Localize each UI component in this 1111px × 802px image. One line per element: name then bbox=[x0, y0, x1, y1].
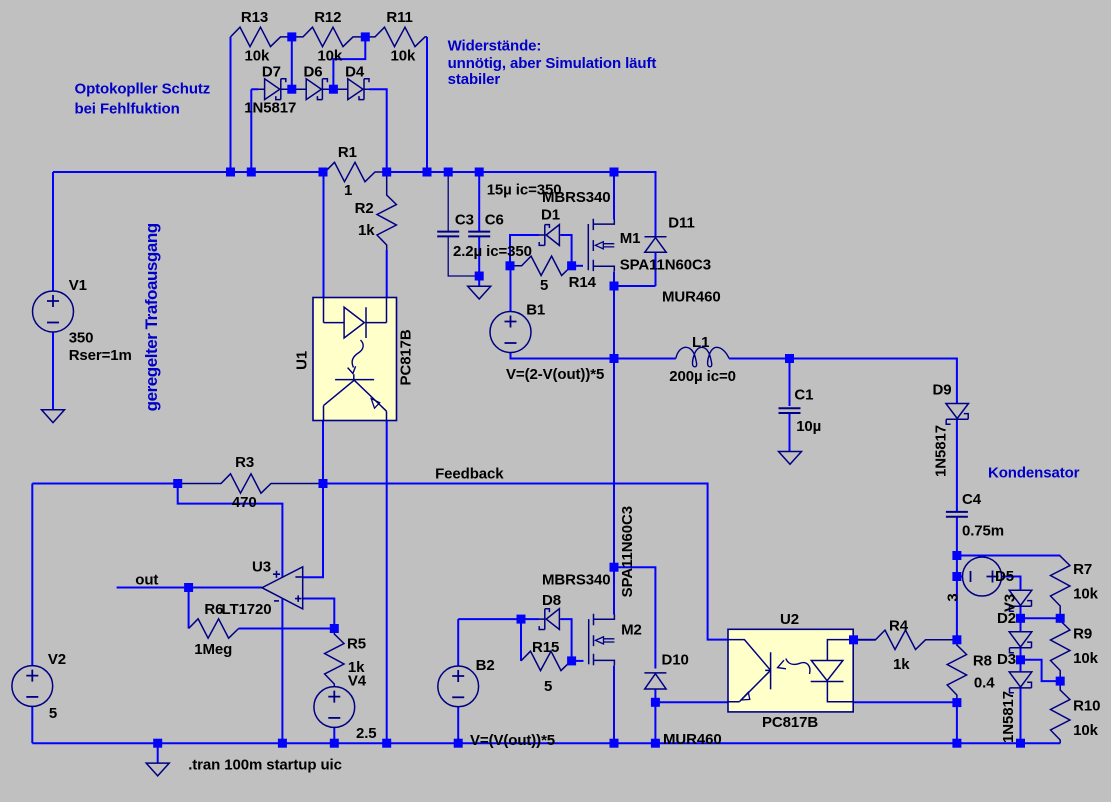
wire D2 cathode to D3 anode bbox=[1020, 648, 1022, 672]
svg-text:1k: 1k bbox=[358, 222, 375, 239]
svg-text:200µ ic=0: 200µ ic=0 bbox=[669, 368, 736, 385]
svg-text:SPA11N60C3: SPA11N60C3 bbox=[620, 257, 711, 274]
optocoupler U1 LED bbox=[324, 298, 387, 323]
diode D5 bbox=[1009, 590, 1032, 605]
optocoupler U2 LED bbox=[827, 640, 853, 702]
wire R15 left riser bbox=[520, 619, 522, 661]
wire R6 to R5 junction bbox=[239, 628, 335, 630]
junction D2/D3 bbox=[1016, 655, 1025, 664]
junction M1 source bbox=[610, 282, 619, 291]
svg-text:V1: V1 bbox=[69, 277, 87, 294]
junction D6/D4 bbox=[329, 85, 338, 94]
svg-text:D8: D8 bbox=[542, 592, 561, 609]
wire node D6-D4 L-link to R12/R11 junction bbox=[333, 37, 365, 89]
wire U3 non-inverting input to R5 node bbox=[303, 599, 335, 629]
svg-text:B2: B2 bbox=[476, 657, 495, 674]
diode D8 MBRS340 bbox=[546, 609, 559, 630]
svg-text:2.2µ ic=350: 2.2µ ic=350 bbox=[453, 243, 532, 260]
diode D7 1N5817 bbox=[265, 79, 280, 100]
svg-text:MUR460: MUR460 bbox=[663, 731, 722, 748]
wire U2 LED anode to R4 bbox=[853, 639, 875, 641]
voltage source V4 bbox=[314, 687, 355, 728]
svg-text:V2: V2 bbox=[48, 651, 66, 668]
junction rail D10 bbox=[651, 739, 660, 748]
wire B1 gate node riser and D1 top link bbox=[510, 235, 539, 266]
svg-text:0.75m: 0.75m bbox=[962, 523, 1004, 540]
resistor R10 bbox=[1051, 681, 1070, 743]
capacitor C4 bbox=[946, 512, 968, 517]
wire V2 bottom to rail bbox=[31, 706, 33, 743]
junction rail B2 bbox=[454, 739, 463, 748]
resistor R6 bbox=[189, 619, 239, 638]
wire D10 node to U2 emitter pin bbox=[655, 701, 728, 703]
wire M1 drain from bus bbox=[613, 172, 615, 220]
inductor L1 bbox=[676, 347, 729, 367]
junction rail ground bbox=[153, 739, 162, 748]
wire out node down to R6 bbox=[188, 588, 190, 629]
junction bus/C3 bbox=[444, 168, 453, 177]
junction out node bbox=[184, 583, 193, 592]
diode D4 bbox=[348, 79, 363, 100]
junction C1 top bbox=[785, 354, 794, 363]
svg-text:D9: D9 bbox=[933, 382, 952, 399]
capacitor C6 bbox=[468, 232, 490, 237]
junction rail R8 bbox=[952, 739, 961, 748]
junction M2 gate bbox=[567, 656, 576, 665]
bv source B1 bbox=[490, 312, 531, 353]
svg-text:10k: 10k bbox=[391, 48, 416, 65]
svg-text:bei Fehlfuktion: bei Fehlfuktion bbox=[75, 101, 180, 118]
svg-text:D6: D6 bbox=[304, 64, 323, 81]
svg-text:5: 5 bbox=[49, 705, 57, 722]
capacitor C1 bbox=[779, 408, 801, 413]
svg-text:Kondensator: Kondensator bbox=[988, 465, 1080, 482]
wire R8 bottom to rail bbox=[956, 703, 958, 744]
svg-text:R5: R5 bbox=[347, 636, 366, 653]
junction R5 top bbox=[330, 624, 339, 633]
wire R13 left riser bbox=[230, 37, 232, 172]
svg-text:2.5: 2.5 bbox=[356, 725, 377, 742]
junction R12/R11 bbox=[361, 32, 370, 41]
svg-text:U1: U1 bbox=[294, 351, 311, 370]
optocoupler U2 PC817B body bbox=[728, 629, 853, 712]
svg-text:Widerstände:: Widerstände: bbox=[448, 38, 542, 55]
wire node D7-D6 riser to R13/R12 junction bbox=[291, 37, 293, 89]
wire U2 LED cathode to R8 bottom node bbox=[853, 701, 957, 703]
svg-text:1Meg: 1Meg bbox=[194, 641, 232, 658]
junction bus/C6 bbox=[475, 168, 484, 177]
wire U1 left pin top bbox=[323, 172, 325, 298]
svg-text:L1: L1 bbox=[692, 334, 709, 351]
wire U3 inverting input to feedback junction bbox=[303, 484, 323, 578]
ground under C1 bbox=[779, 452, 802, 465]
wire ground stub under C3/C6 bbox=[478, 276, 480, 286]
wire V2 top lead to feedback rail bbox=[31, 484, 33, 666]
optocoupler U1 PC817B body bbox=[313, 298, 397, 421]
resistor R9 bbox=[1051, 618, 1070, 681]
junction D7/D6 bbox=[287, 85, 296, 94]
wire M2 drain stub bbox=[613, 567, 615, 614]
diode D3 1N5817 bbox=[1009, 672, 1032, 687]
svg-text:D10: D10 bbox=[662, 652, 689, 669]
wire V1 top lead bbox=[52, 172, 54, 291]
svg-text:PC817B: PC817B bbox=[398, 329, 415, 385]
junction M2 drain bbox=[610, 563, 619, 572]
wire L1 to C1 node and down to D9 bbox=[729, 359, 957, 404]
wire D2 node to R7/R9 junction bbox=[1021, 617, 1061, 619]
junction bus/D7 bbox=[247, 168, 256, 177]
wire D1 cathode jog down to gate junction bbox=[561, 235, 572, 266]
junction R14 left bbox=[506, 261, 515, 270]
op-amp U3 LT1720 triangle bbox=[262, 567, 303, 609]
wire B2 top lead to D8 node bbox=[458, 619, 521, 666]
svg-text:unnötig, aber Simulation läuft: unnötig, aber Simulation läuft bbox=[448, 55, 657, 72]
svg-text:Feedback: Feedback bbox=[435, 466, 504, 483]
svg-text:D11: D11 bbox=[668, 215, 694, 232]
wire D3 cathode to rail bbox=[1020, 688, 1022, 743]
resistor R13 bbox=[231, 27, 292, 46]
optocoupler U2 light arrow bbox=[786, 659, 810, 675]
junction rail V4 bbox=[330, 739, 339, 748]
wire B2 bottom to rail bbox=[457, 707, 459, 743]
wire B1 bottom to output node bbox=[511, 353, 615, 359]
svg-text:C6: C6 bbox=[485, 212, 504, 229]
svg-text:R14: R14 bbox=[569, 274, 597, 291]
svg-text:PC817B: PC817B bbox=[762, 714, 818, 731]
diode D6 bbox=[306, 79, 321, 100]
wire U3 V- stub down to rail bbox=[281, 598, 283, 743]
optocoupler U2 emitter arrow head bbox=[741, 692, 750, 700]
resistor R8 bbox=[947, 640, 966, 703]
wire output row to L1 bbox=[614, 358, 676, 360]
wire R7 top corner bbox=[1059, 555, 1061, 558]
svg-text:10k: 10k bbox=[317, 48, 342, 65]
wire top bus from V1 to D11 corner bbox=[53, 172, 656, 237]
junction rail M2 bbox=[610, 739, 619, 748]
wire out net to U3 output bbox=[117, 587, 262, 589]
svg-text:1k: 1k bbox=[893, 656, 910, 673]
svg-text:R7: R7 bbox=[1073, 561, 1092, 578]
wire D5 cathode to D2 anode bbox=[1020, 606, 1022, 632]
resistor R7 bbox=[1051, 555, 1070, 618]
svg-text:geregelter Trafoausgang: geregelter Trafoausgang bbox=[142, 223, 161, 411]
svg-text:R8: R8 bbox=[973, 653, 992, 670]
junction bus/M1 drain bbox=[610, 168, 619, 177]
ground under V1 bbox=[42, 410, 65, 423]
junction R4/R8 bbox=[952, 635, 961, 644]
junction C3/C6 ground bbox=[475, 272, 484, 281]
wire M1 source junction down to output row bbox=[613, 286, 615, 359]
wire D9 cathode to C4 bbox=[956, 419, 958, 512]
mosfet M2 SPA11N60C3 bbox=[593, 614, 595, 665]
junction bus/R1 left bbox=[319, 168, 328, 177]
svg-text:.tran 100m startup uic: .tran 100m startup uic bbox=[188, 757, 342, 774]
svg-text:3: 3 bbox=[945, 593, 962, 601]
svg-text:out: out bbox=[135, 572, 158, 589]
wire D8 anode lead bbox=[521, 618, 539, 620]
junction bus/R11 bbox=[423, 168, 432, 177]
svg-text:1: 1 bbox=[344, 182, 352, 199]
svg-text:D4: D4 bbox=[345, 64, 365, 81]
junction bus/R1 right bbox=[382, 168, 391, 177]
wire M1 gate lead bbox=[572, 265, 583, 267]
wire R11 right riser to bus bbox=[426, 37, 428, 172]
resistor R2 bbox=[377, 172, 396, 250]
junction R8 bottom bbox=[952, 698, 961, 707]
svg-text:C3: C3 bbox=[455, 212, 474, 229]
wire D10 bottom to rail bbox=[654, 689, 656, 743]
svg-text:R3: R3 bbox=[235, 454, 254, 471]
wire V1 bottom to ground bbox=[52, 333, 54, 410]
resistor R14 bbox=[510, 256, 572, 275]
op-amp U3 non-inverting input mark bbox=[295, 595, 302, 602]
resistor R15 bbox=[521, 651, 572, 670]
svg-text:470: 470 bbox=[232, 494, 257, 511]
diode D10 MUR460 bbox=[644, 672, 666, 674]
ground on bottom rail bbox=[146, 763, 169, 776]
resistor R4 bbox=[854, 630, 957, 649]
svg-text:10k: 10k bbox=[1073, 586, 1098, 603]
wire M1 source to junction bbox=[613, 272, 615, 287]
wire V4 bottom to rail bbox=[333, 727, 335, 743]
wire D8 cathode jog down to R15/M2 gate node bbox=[561, 619, 572, 661]
svg-text:D3: D3 bbox=[997, 651, 1016, 668]
svg-text:Rser=1m: Rser=1m bbox=[69, 347, 132, 364]
svg-text:5: 5 bbox=[544, 678, 552, 695]
mosfet M1 SPA11N60C3 bbox=[592, 219, 594, 271]
svg-text:V=(2-V(out))*5: V=(2-V(out))*5 bbox=[506, 366, 604, 383]
svg-text:LT1720: LT1720 bbox=[222, 601, 272, 618]
svg-text:MBRS340: MBRS340 bbox=[542, 572, 611, 589]
svg-text:D7: D7 bbox=[262, 64, 281, 81]
op-amp U3 V- mark bbox=[274, 600, 279, 602]
svg-text:U2: U2 bbox=[780, 611, 799, 628]
svg-text:R12: R12 bbox=[314, 9, 341, 26]
svg-text:0.4: 0.4 bbox=[974, 675, 995, 692]
svg-text:M1: M1 bbox=[620, 230, 641, 247]
wire C4 bottom to junctions column bbox=[956, 517, 958, 640]
svg-text:stabiler: stabiler bbox=[448, 71, 501, 88]
svg-text:R11: R11 bbox=[386, 9, 412, 26]
optocoupler U1 light arrow bbox=[352, 340, 363, 368]
svg-text:5: 5 bbox=[540, 277, 548, 294]
svg-text:10k: 10k bbox=[1073, 722, 1098, 739]
wire C6 bottom lead to junction bbox=[478, 237, 480, 276]
svg-text:U3: U3 bbox=[252, 559, 271, 576]
wire V3 plus lead to diode chain top bbox=[1001, 577, 1021, 591]
diode D11 MUR460 bbox=[645, 236, 667, 238]
wire D11 bottom link to M1 source bbox=[614, 253, 656, 287]
wire M1-M2 interconnect down to M2 drain junction bbox=[613, 359, 615, 568]
op-amp U3 V+ mark bbox=[273, 571, 280, 578]
diode D1 MBRS340 bbox=[546, 225, 559, 246]
wire D7 anode riser bbox=[251, 89, 258, 172]
wire bottom ground rail bbox=[32, 742, 1060, 744]
junction output node bbox=[610, 354, 619, 363]
svg-text:R4: R4 bbox=[889, 618, 909, 635]
voltage source V3 bbox=[963, 557, 1002, 596]
wire D3 node jog to R9/R10 junction bbox=[1021, 660, 1061, 681]
resistor R1 bbox=[323, 162, 387, 181]
svg-text:D2: D2 bbox=[997, 610, 1016, 627]
svg-text:V4: V4 bbox=[348, 673, 367, 690]
junction rail U3 bbox=[278, 739, 287, 748]
op-amp U3 inverting input mark bbox=[295, 576, 302, 578]
wire V3 left lead bbox=[957, 576, 963, 578]
wire C1 bottom lead to ground bbox=[789, 413, 791, 452]
resistor R5 bbox=[325, 629, 344, 687]
wire feedback net to U2 collector bbox=[32, 484, 728, 640]
svg-text:D1: D1 bbox=[541, 207, 560, 224]
wire U1 right pin bottom down to rail bbox=[386, 421, 388, 744]
capacitor C3 bbox=[437, 232, 459, 237]
wire M2 source down to rail bbox=[613, 666, 615, 744]
junction D5/D2 bbox=[1016, 614, 1025, 623]
optocoupler U2 phototransistor bbox=[728, 640, 771, 690]
svg-text:SPA11N60C3: SPA11N60C3 bbox=[619, 506, 636, 597]
junction bus/R13 bbox=[226, 168, 235, 177]
wire ground stub on rail bbox=[157, 743, 159, 763]
svg-text:C4: C4 bbox=[962, 491, 982, 508]
junction R9/R10 bbox=[1056, 677, 1065, 686]
diode D9 1N5817 bbox=[946, 404, 969, 419]
svg-text:1N5817: 1N5817 bbox=[1000, 691, 1017, 743]
svg-text:Optokopller Schutz: Optokopller Schutz bbox=[75, 81, 211, 98]
svg-text:10k: 10k bbox=[245, 48, 270, 65]
svg-text:C1: C1 bbox=[794, 387, 813, 404]
junction D10/U2 bbox=[651, 698, 660, 707]
svg-text:10k: 10k bbox=[1073, 650, 1098, 667]
svg-text:MBRS340: MBRS340 bbox=[542, 189, 611, 206]
junction R7/R9 bbox=[1056, 614, 1065, 623]
svg-text:R2: R2 bbox=[355, 200, 374, 217]
junction U2/R4 bbox=[849, 635, 858, 644]
resistor R11 bbox=[365, 27, 427, 46]
junction V3 left bbox=[952, 572, 961, 581]
junction R14 right bbox=[567, 261, 576, 270]
junction D8 left bbox=[517, 615, 526, 624]
junction C4/R7 row bbox=[952, 551, 961, 560]
voltage source V1 bbox=[33, 291, 74, 332]
optocoupler U1 phototransistor bbox=[335, 374, 374, 379]
wire M2 gate lead bbox=[572, 660, 584, 662]
svg-text:D5: D5 bbox=[995, 568, 1014, 585]
svg-text:10µ: 10µ bbox=[796, 418, 821, 435]
svg-text:R13: R13 bbox=[241, 9, 268, 26]
capacitor C3 leads bbox=[448, 172, 479, 276]
junction rail U1 bbox=[382, 739, 391, 748]
wire B1 top lead bbox=[510, 266, 512, 312]
wire C1 top lead bbox=[789, 359, 791, 407]
wire node C4/R7 branch row bbox=[957, 555, 1060, 557]
voltage source V2 bbox=[12, 666, 53, 707]
ground under C6 bbox=[468, 286, 491, 299]
wire R2 bottom to U1 bbox=[386, 250, 388, 298]
svg-text:1N5817: 1N5817 bbox=[244, 100, 296, 117]
junction feedback/R3 left bbox=[173, 479, 182, 488]
svg-text:R15: R15 bbox=[532, 639, 559, 656]
svg-text:B1: B1 bbox=[526, 302, 545, 319]
svg-text:350: 350 bbox=[69, 330, 94, 347]
junction R13/R12 bbox=[287, 32, 296, 41]
wire U1 left pin bottom through feedback to U3 minus riser bbox=[322, 421, 324, 578]
diode D2 bbox=[1009, 632, 1032, 647]
svg-text:R1: R1 bbox=[338, 144, 357, 161]
wire C6 top lead bbox=[478, 172, 480, 231]
junction rail diode chain bbox=[1016, 739, 1025, 748]
bv source B2 bbox=[438, 666, 479, 707]
wire R3 lower parallel branch to U3 V+ stub bbox=[178, 484, 283, 578]
wire M2 drain node to D10 top bbox=[614, 567, 655, 668]
optocoupler U1 emitter arrow head bbox=[371, 399, 380, 409]
wire D4 cathode down to main bus bbox=[369, 89, 387, 172]
svg-text:R9: R9 bbox=[1073, 626, 1092, 643]
resistor R12 bbox=[292, 27, 366, 46]
resistor R3 bbox=[178, 474, 323, 493]
svg-text:MUR460: MUR460 bbox=[662, 289, 721, 306]
svg-text:R10: R10 bbox=[1073, 698, 1100, 715]
svg-text:M2: M2 bbox=[621, 622, 642, 639]
svg-text:V=(V(out))*5: V=(V(out))*5 bbox=[470, 732, 555, 749]
junction feedback/R3 right bbox=[319, 479, 328, 488]
svg-text:1N5817: 1N5817 bbox=[933, 425, 950, 477]
